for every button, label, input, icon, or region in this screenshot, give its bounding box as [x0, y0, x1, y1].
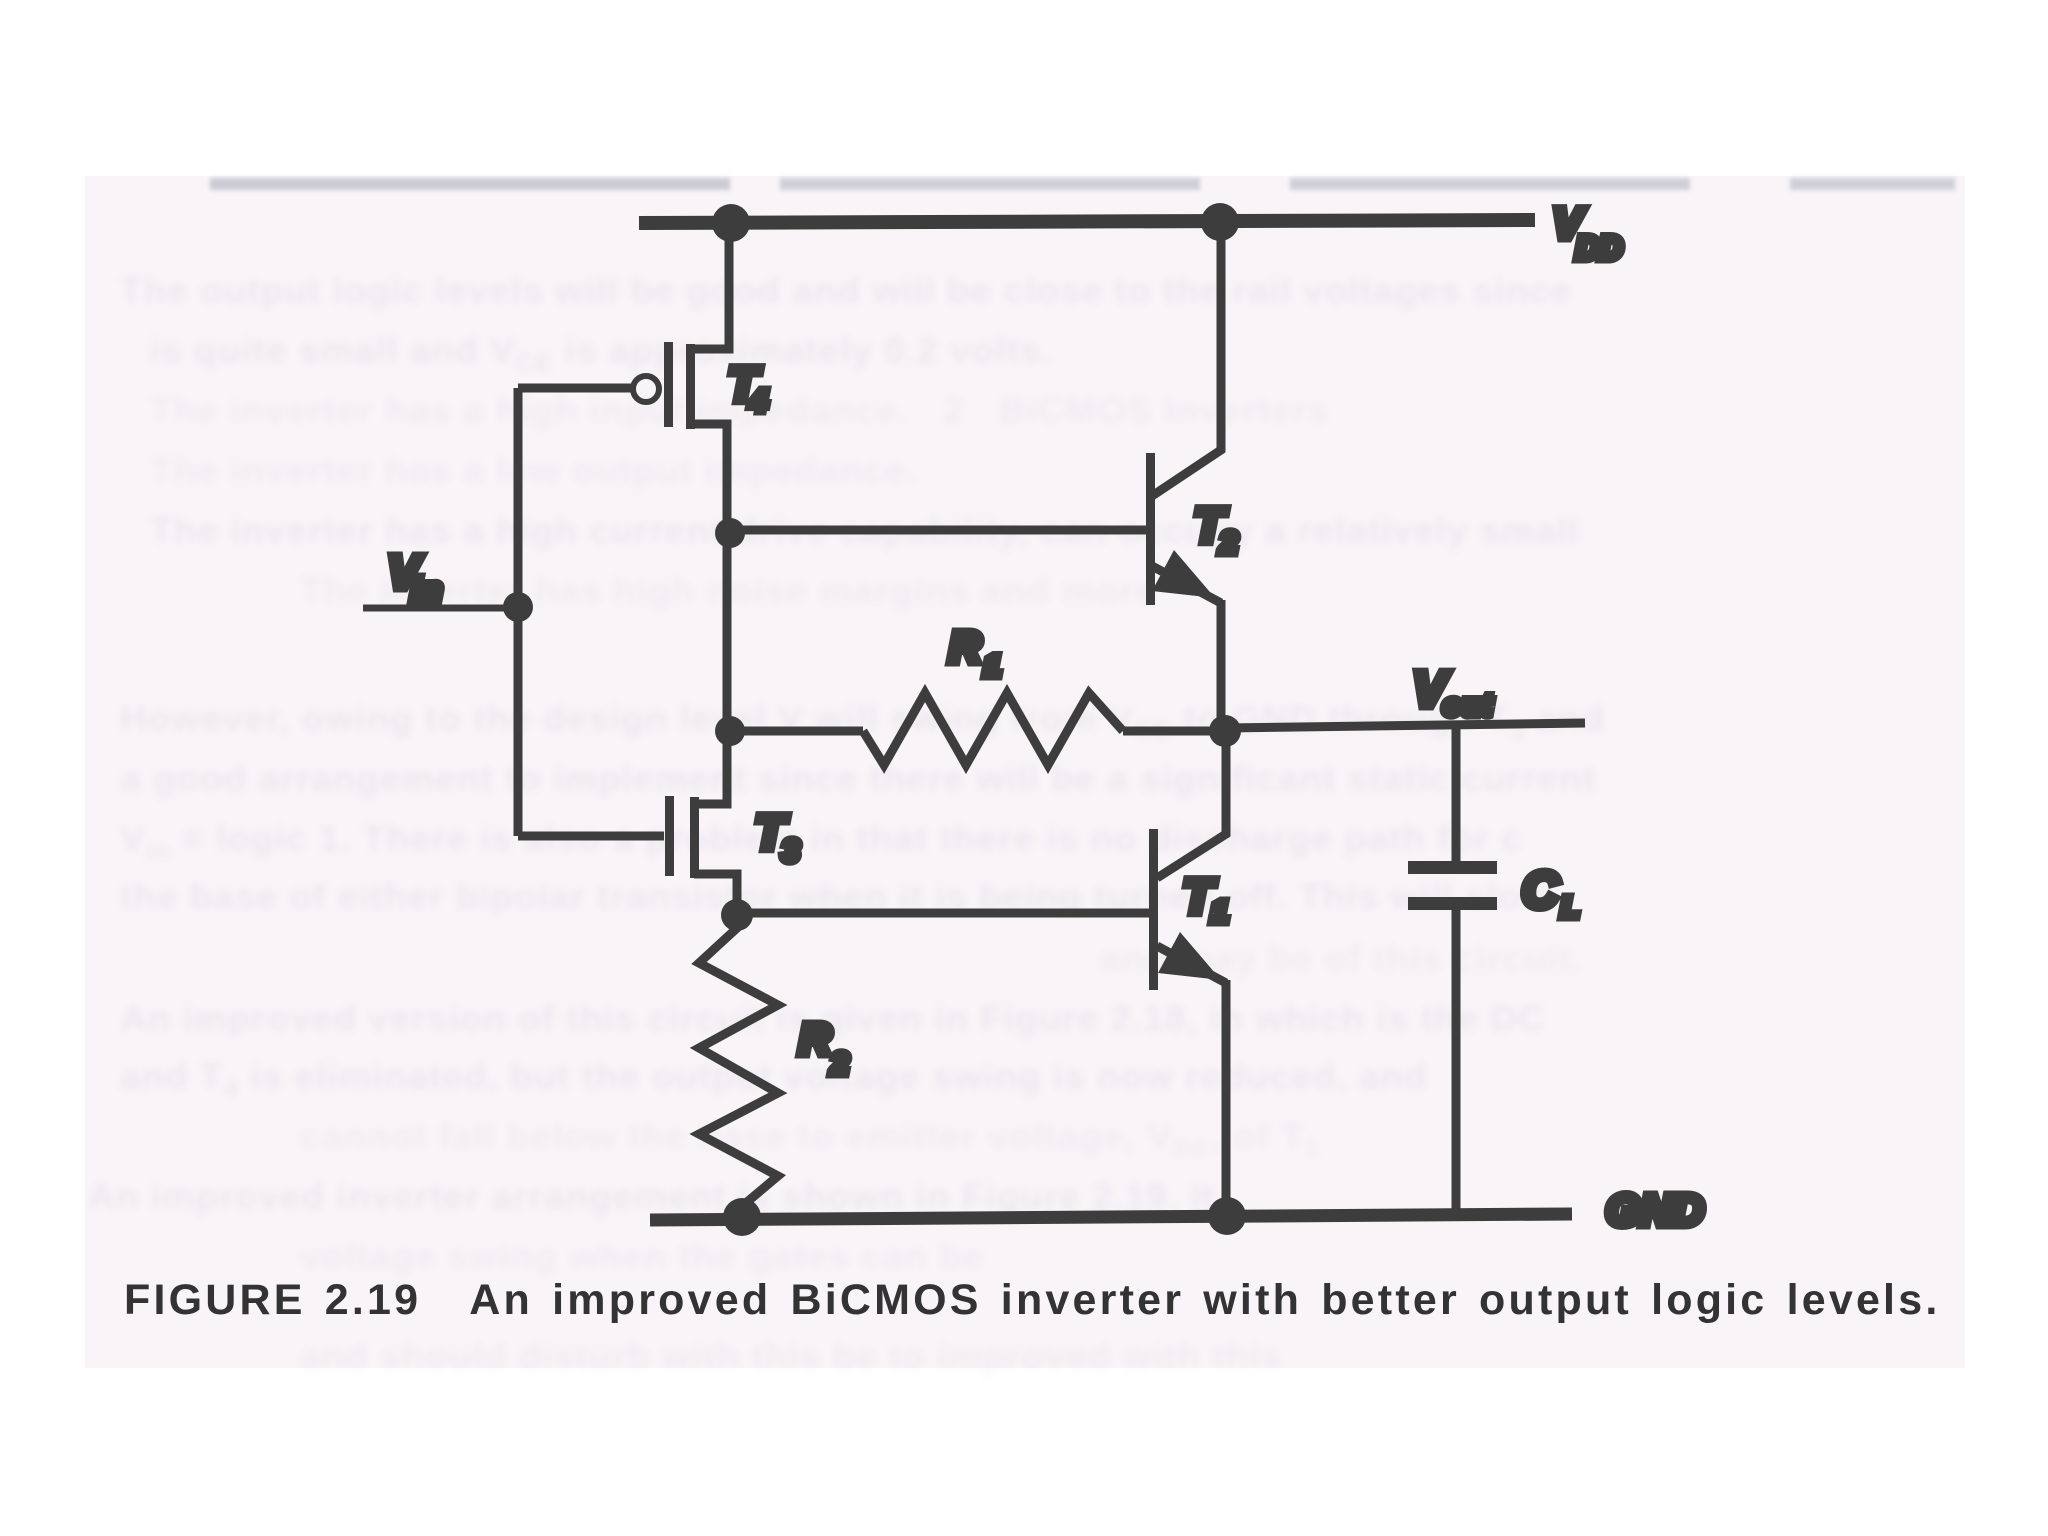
svg-text:GND: GND [1606, 1186, 1704, 1235]
svg-text:C: C [1522, 862, 1559, 918]
label T4 [728, 359, 767, 418]
svg-text:3: 3 [782, 833, 799, 868]
label VDD [1553, 200, 1622, 266]
node: VDD / T4 source junction [712, 204, 750, 242]
label T3 [755, 807, 799, 868]
wire: VDD to T4 source [690, 222, 729, 349]
transistor T4 (PMOS) [518, 342, 695, 429]
svg-text:in: in [411, 571, 443, 608]
node: Vin input junction [503, 592, 533, 622]
node: VDD / T2 collector junction [1201, 203, 1239, 241]
svg-text:out: out [1443, 689, 1493, 722]
label T1 [1183, 871, 1228, 929]
label Vin [388, 546, 443, 608]
ground rail GND [650, 1214, 1572, 1220]
capacitor CL [1408, 725, 1497, 1214]
svg-text:2: 2 [1219, 525, 1237, 560]
node: T3 source / R2 / T1 base junction [721, 899, 753, 931]
label CL [1522, 862, 1579, 924]
label Vout [1413, 663, 1493, 722]
svg-text:2: 2 [830, 1046, 848, 1081]
node: T2 base junction on left column [715, 518, 745, 548]
svg-text:4: 4 [749, 383, 767, 418]
transistor T3 (NMOS) [518, 796, 737, 916]
wire: T2 base [730, 526, 1146, 535]
node: Vout junction [1209, 715, 1241, 747]
svg-text:1: 1 [1211, 894, 1228, 929]
label R2 [799, 1015, 848, 1081]
node: GND / T1 emitter junction [1208, 1197, 1246, 1235]
node: R1 left junction [715, 716, 745, 746]
caption [124, 1276, 2004, 1325]
ghost bleed-through text rows [0, 0, 2048, 1]
resistor R2 [699, 916, 778, 1217]
wire: T1 base [737, 909, 1149, 918]
label T2 [1194, 500, 1237, 560]
wire: Vout [1225, 723, 1585, 728]
label GND [1606, 1186, 1704, 1235]
wire: T4 drain down to T3 drain (left column) [690, 424, 727, 804]
svg-text:DD: DD [1576, 230, 1622, 266]
svg-text:R: R [799, 1015, 831, 1064]
svg-text:R: R [949, 623, 981, 672]
power rail VDD [639, 220, 1535, 223]
transistor T1 (NPN) [1149, 732, 1226, 1217]
svg-text:1: 1 [984, 650, 1001, 683]
wire: input Vin [363, 388, 518, 836]
svg-text:L: L [1561, 892, 1579, 924]
node: GND / R2 junction [723, 1198, 761, 1236]
label R1 [949, 623, 1001, 683]
transistor T2 (NPN) [1146, 221, 1221, 731]
resistor R1 [730, 693, 1225, 765]
